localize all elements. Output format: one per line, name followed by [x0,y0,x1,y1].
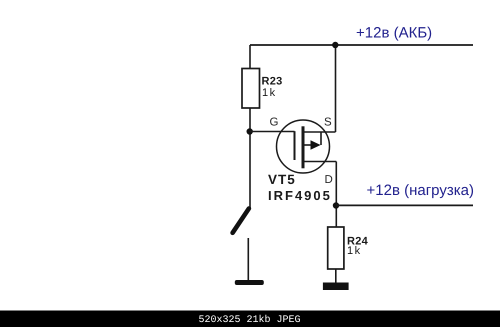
svg-text:G: G [270,117,279,129]
svg-text:IRF4905: IRF4905 [268,188,332,203]
svg-text:520x325 21kb JPEG: 520x325 21kb JPEG [199,314,301,326]
svg-text:D: D [325,174,333,186]
svg-text:1k: 1k [347,245,362,257]
svg-text:+12в (АКБ): +12в (АКБ) [356,25,432,42]
svg-text:+12в (нагрузка): +12в (нагрузка) [367,182,474,199]
svg-text:S: S [324,117,332,129]
svg-text:VT5: VT5 [268,172,296,187]
svg-text:R23: R23 [262,76,283,88]
svg-text:1k: 1k [262,87,277,99]
